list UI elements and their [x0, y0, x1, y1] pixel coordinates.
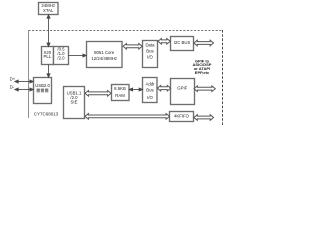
svg-text:RAM: RAM — [115, 93, 125, 98]
svg-text:SIE: SIE — [71, 99, 78, 104]
svg-text:12/24/48MHz: 12/24/48MHz — [91, 56, 117, 61]
svg-text:I/O: I/O — [147, 95, 153, 100]
svg-text:4KFIFO: 4KFIFO — [174, 114, 190, 119]
svg-text:I/O: I/O — [147, 54, 153, 59]
svg-text:EPP,etc: EPP,etc — [195, 70, 210, 75]
svg-text:Data: Data — [145, 42, 155, 47]
svg-text:USB2.0: USB2.0 — [35, 83, 50, 88]
svg-text:8.5KB: 8.5KB — [114, 86, 126, 91]
svg-text:Bus: Bus — [146, 88, 153, 93]
svg-text:XTAL: XTAL — [43, 8, 54, 13]
svg-text:D+: D+ — [10, 76, 16, 81]
svg-text:Addr: Addr — [145, 82, 155, 87]
svg-text:/2.0: /2.0 — [57, 56, 65, 61]
svg-text:8051 Core: 8051 Core — [94, 50, 115, 55]
svg-text:I2C BUS: I2C BUS — [174, 40, 191, 45]
svg-text:GPIF: GPIF — [177, 85, 187, 90]
svg-text:D-: D- — [10, 85, 15, 90]
svg-text:Bus: Bus — [146, 48, 153, 53]
svg-text:CY7C68013: CY7C68013 — [34, 111, 59, 116]
svg-text:PLL: PLL — [43, 54, 51, 59]
